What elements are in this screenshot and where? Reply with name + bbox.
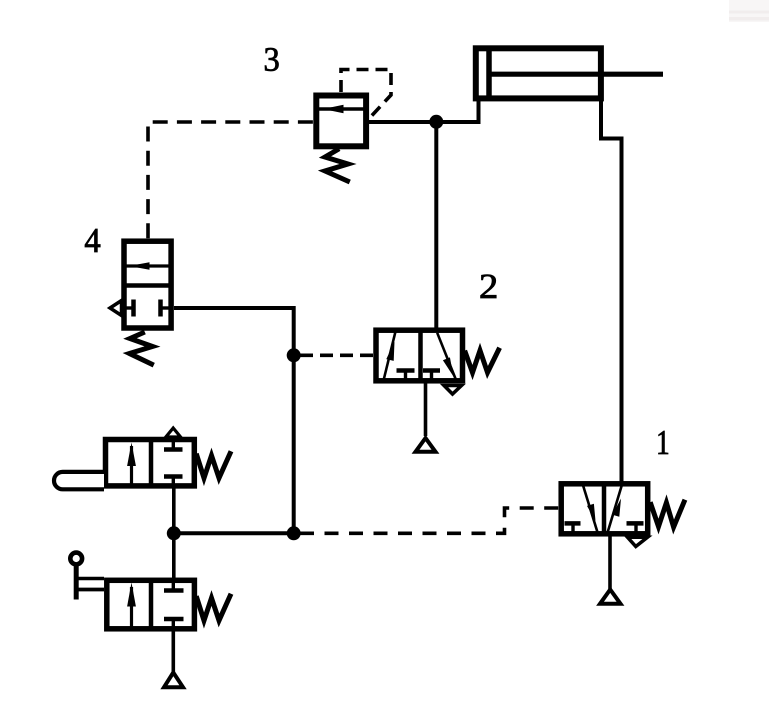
exhaust triangle: lever valve bottom vent bbox=[164, 673, 183, 688]
plunger valve body (2/2 valve, upper left) bbox=[106, 438, 195, 487]
plunger actuator (pill) bbox=[54, 472, 104, 489]
spring: valve 3 bbox=[325, 150, 348, 181]
exhaust triangle: plunger valve top vent bbox=[166, 428, 181, 437]
spring: valve 1 bbox=[651, 502, 684, 527]
wire: node D down to lever valve inlet bbox=[172, 533, 176, 578]
cylinder (single-acting air cylinder, top right) bbox=[476, 46, 663, 100]
valve 3 body (sequence valve) bbox=[316, 96, 366, 147]
pilot line: valve 3 internal pilot (dashed loop) bbox=[341, 70, 391, 118]
valve 4 body (pilot operated shut-off valve) bbox=[124, 241, 172, 328]
wire: node A down to valve 2 supply port bbox=[434, 122, 438, 330]
spring: plunger valve bbox=[197, 454, 230, 479]
pilot line: valve 3 inlet to valve 4 (dashed) bbox=[148, 122, 313, 238]
node A junction dot bbox=[429, 115, 443, 129]
wire: cylinder right port down to valve 1 supply bbox=[601, 101, 622, 483]
lever valve body (2/2 valve, lower left) bbox=[107, 579, 195, 630]
pilot line: node C to valve 1 (dashed) bbox=[300, 508, 559, 533]
wire: valve 2 exhaust down bbox=[424, 383, 428, 436]
scan artifact top-right bbox=[729, 0, 769, 22]
piston of cylinder bbox=[486, 46, 492, 100]
wire: valve 4 outlet right and down to node B bbox=[174, 308, 294, 355]
pilot line: node B to valve 2 (dashed) bbox=[300, 353, 373, 357]
wire: node A to valve 3 outlet bbox=[369, 120, 437, 124]
spring: lever valve bbox=[197, 596, 230, 621]
wire: node D up to plunger valve outlet bbox=[172, 488, 176, 533]
node D junction dot bbox=[167, 526, 181, 540]
label 4 bbox=[85, 229, 100, 252]
label 1 bbox=[659, 431, 669, 454]
lever fork lower bbox=[76, 588, 104, 592]
valve 1 body (3/2 pilot valve) bbox=[561, 484, 648, 535]
lever actuator knob bbox=[70, 553, 82, 565]
wire: cylinder left port down to node A bbox=[440, 101, 479, 122]
label 3 bbox=[265, 48, 279, 71]
node C junction dot bbox=[287, 526, 301, 540]
exhaust triangle: valve 2 bottom vent bbox=[416, 438, 436, 452]
exhaust triangle: valve 1 under right cell bbox=[628, 537, 648, 546]
exhaust triangle: valve 4 left bbox=[110, 301, 122, 316]
spring: valve 4 bbox=[130, 333, 153, 364]
wire: node B down to node C bbox=[292, 355, 296, 533]
piston rod of cylinder bbox=[489, 72, 663, 77]
spring: valve 2 bbox=[466, 350, 499, 373]
lever fork upper bbox=[76, 577, 104, 581]
wire: lever valve exhaust down bbox=[172, 630, 176, 672]
wire: bus node D to node C bbox=[174, 531, 294, 535]
lever actuator stem bbox=[74, 563, 79, 600]
exhaust triangle: valve 2 under right cell bbox=[444, 386, 462, 395]
valve 2 body (3/2 pilot valve) bbox=[376, 330, 463, 382]
wire: valve 1 exhaust down bbox=[608, 536, 612, 589]
node B junction dot bbox=[287, 348, 301, 362]
exhaust triangle: valve 1 bottom vent bbox=[600, 590, 621, 604]
label 2 bbox=[481, 275, 497, 298]
